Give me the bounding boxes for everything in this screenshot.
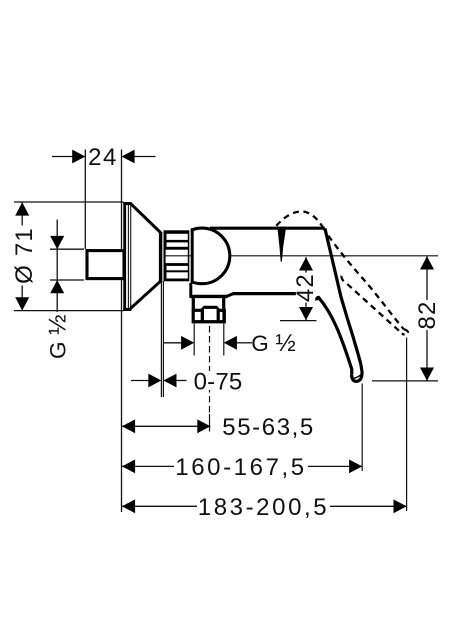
valve body flat left edge xyxy=(191,228,194,283)
arrow: dim 183-200,5 left arrowhead xyxy=(122,499,135,513)
svg-text:G ½: G ½ xyxy=(44,314,71,359)
svg-text:0-75: 0-75 xyxy=(194,369,243,396)
escutcheon bottom cap xyxy=(123,308,131,311)
arrow: dim-42 bottom arrowhead xyxy=(299,307,313,320)
wire: dim 160-167,5 line xyxy=(122,465,362,467)
outlet stub left wall xyxy=(192,298,195,310)
svg-text:183-200,5: 183-200,5 xyxy=(198,494,330,521)
body bottom edge under circle xyxy=(190,295,228,298)
arrow: G1/2 outlet left arrowhead xyxy=(181,336,194,350)
wire: G1/2 left top tick line xyxy=(50,248,84,250)
wire: dim-24 right leader xyxy=(135,156,156,158)
arrow: dim 160-167,5 left arrowhead xyxy=(122,460,135,474)
arrow: dim 0-75 left arrowhead xyxy=(148,374,161,388)
label: dim text 42 (rotated) xyxy=(292,273,319,303)
arrow: dim 55-63,5 left arrowhead xyxy=(122,419,135,433)
wire: dim-82 bottom reference line xyxy=(372,380,438,382)
wire: G1/2 left vertical dimension line xyxy=(56,220,58,313)
wire: G1/2 outlet right extension line xyxy=(223,324,225,356)
joint wedge between body and lever xyxy=(277,227,286,262)
label: dim text 160-167,5 xyxy=(174,454,308,481)
arrow: dim 55-63,5 right arrowhead xyxy=(197,419,210,433)
svg-text:82: 82 xyxy=(414,300,441,329)
wire: wall extension line (x=121.5) xyxy=(121,150,123,513)
arrow: dim 160-167,5 right arrowhead xyxy=(349,460,362,474)
wire: dim 0-75 right leader xyxy=(177,380,187,382)
escutcheon cone front face xyxy=(159,233,162,282)
lever underside curve xyxy=(317,297,352,374)
wire: G1/2 left bottom tick line xyxy=(50,279,84,281)
wire: dim 55-63,5 line xyxy=(122,425,210,427)
arrow: G1/2 left upper arrowhead (pointing down) xyxy=(50,236,64,249)
arrow: G1/2 outlet right arrowhead xyxy=(224,336,237,350)
label: dim text 183-200,5 xyxy=(197,494,330,521)
label: dim text G 1/2 (outlet) xyxy=(251,330,296,357)
arrow: dim-82 bottom arrowhead xyxy=(420,368,434,381)
svg-text:24: 24 xyxy=(88,144,118,171)
dashed arc: raised lever root xyxy=(276,211,322,226)
wire: dim-42 bottom tick line xyxy=(280,320,317,322)
body bottom edge right segment xyxy=(233,292,297,295)
body left edge below circle xyxy=(189,283,192,298)
arrow: dim-42 top arrowhead xyxy=(299,257,313,270)
svg-text:55-63,5: 55-63,5 xyxy=(222,414,315,441)
wire: dim-42 vertical dimension line xyxy=(305,257,307,320)
arrow: dim-24 right arrowhead xyxy=(122,150,135,164)
wire: extension line from dashed lever tip xyxy=(406,338,408,512)
wire: G1/2 outlet left leader xyxy=(164,342,182,344)
arrow: dim-71 top arrowhead xyxy=(15,202,29,215)
svg-text:Ø 71: Ø 71 xyxy=(11,227,38,284)
escutcheon back edge at wall xyxy=(123,202,126,311)
wire: dim 183-200,5 line xyxy=(122,505,407,507)
escutcheon cone bottom slant xyxy=(131,280,162,308)
label: dim text 0-75 xyxy=(193,369,243,396)
dashed lower edge of raised lever xyxy=(341,276,402,334)
arrow: dim 0-75 right arrowhead xyxy=(163,374,176,388)
label: dim text G 1/2 (rotated, left) xyxy=(44,314,71,359)
outlet hex nut xyxy=(192,306,226,324)
escutcheon cone top slant xyxy=(131,204,162,234)
wire: extension line left of pipe stub (x=85.3) xyxy=(84,150,86,250)
escutcheon flange front thin lines xyxy=(128,203,130,311)
label: dim text 82 (rotated) xyxy=(414,300,441,330)
body top edge line xyxy=(210,227,325,230)
svg-text:G ½: G ½ xyxy=(251,330,296,357)
arrow: dim-71 bottom arrowhead xyxy=(15,297,29,310)
wire: dim 0-75 left leader xyxy=(131,380,149,382)
label: dim text Ø 71 (rotated) xyxy=(11,226,38,286)
knurled nut ring xyxy=(164,230,190,281)
body bottom step xyxy=(227,294,233,297)
outlet stub right wall xyxy=(222,298,225,310)
mask for flattened left side of circle xyxy=(171,223,191,289)
wire: dim-24 left leader xyxy=(52,156,73,158)
wire: outlet dashed centerline xyxy=(209,326,211,432)
wire: horizontal centerline through valve body xyxy=(164,255,438,257)
wire: extension line from solid lever tip xyxy=(361,384,363,472)
arrow: G1/2 left lower arrowhead (pointing up) xyxy=(50,280,64,293)
wire: G1/2 outlet right leader xyxy=(237,342,252,344)
lever tip inner line xyxy=(353,375,361,379)
lever (solid, down position): right edge and rounded tip xyxy=(325,228,362,381)
svg-text:160-167,5: 160-167,5 xyxy=(175,454,307,481)
arrow: dim 183-200,5 right arrowhead xyxy=(394,499,407,513)
wire: G1/2 outlet left extension line xyxy=(193,324,195,356)
wire: dim-71 top extension line xyxy=(14,201,124,203)
arrow: dim-82 top arrowhead xyxy=(420,256,434,269)
dashed upper edge of raised lever xyxy=(323,227,404,329)
wire: dim-82 vertical dimension line xyxy=(426,256,428,381)
label: dim text 24 xyxy=(88,144,118,171)
wire: dim 0-75 double extension lines xyxy=(161,281,163,397)
pipe stub (wall supply G1/2) xyxy=(87,251,124,279)
dashed tip cap of raised lever xyxy=(402,329,408,335)
arrow: dim-24 left arrowhead xyxy=(72,150,85,164)
escutcheon top cap xyxy=(123,202,131,205)
label: dim text 55-63,5 xyxy=(222,414,315,441)
wire: dim-71 vertical dimension line xyxy=(21,202,23,310)
valve body circle xyxy=(174,228,230,284)
svg-text:42: 42 xyxy=(292,273,319,302)
wire: dim-71 bottom extension line xyxy=(14,310,124,312)
centerline crossing knurl middle slot xyxy=(164,255,192,257)
